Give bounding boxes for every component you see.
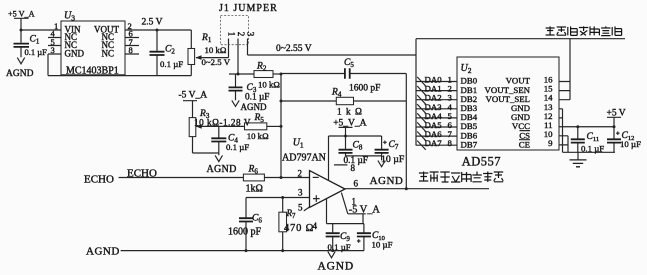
- svg-text:C7: C7: [389, 140, 399, 151]
- U3 right pin stubs 6,7,8: [125, 29, 139, 56]
- svg-text:DB7: DB7: [461, 139, 478, 149]
- wire AGND rail (bottom): [121, 249, 364, 252]
- svg-text:C8: C8: [353, 141, 363, 152]
- wire VOUT/SEN/SEL tie to top run: [559, 39, 570, 100]
- bus tap DA4 pin5: [416, 111, 457, 123]
- wire DAC output top run: [416, 38, 625, 40]
- capacitor C4: [211, 126, 249, 155]
- bus tap DA5 pin6: [416, 120, 457, 132]
- pin 1 / -5V_A supply (U1): [341, 193, 380, 224]
- capacitor C8: [339, 136, 368, 166]
- svg-text:10 kΩ: 10 kΩ: [247, 131, 269, 141]
- wire node C3/R2: [229, 73, 254, 76]
- pin 8 supply stub: [329, 136, 356, 181]
- svg-text:10 µF: 10 µF: [372, 240, 393, 250]
- wire digital ground rail: [563, 151, 616, 153]
- svg-text:0~2.55 V: 0~2.55 V: [276, 44, 312, 54]
- capacitor C7: [346, 136, 405, 165]
- wire VCC pin 11 rail: [559, 125, 616, 128]
- ground AGND (R3/C4): [207, 155, 237, 175]
- svg-text:C5: C5: [344, 58, 354, 69]
- wire CS/CE pins 10,9 to ground: [559, 136, 568, 153]
- svg-text:10 kΩ-1.28 V: 10 kΩ-1.28 V: [194, 118, 251, 128]
- svg-text:AGND: AGND: [86, 245, 120, 257]
- svg-text:5: 5: [298, 202, 303, 212]
- svg-text:3: 3: [246, 32, 256, 37]
- svg-text:+5 V_A: +5 V_A: [8, 10, 35, 19]
- node 至可变增益放大器 (to VGA) pseudo-CJK: [419, 172, 503, 183]
- svg-text:8: 8: [129, 45, 133, 55]
- svg-text:2: 2: [236, 32, 246, 37]
- power +5V_A supply (top left): [8, 10, 35, 31]
- IC U3 MC1403BP1 box: [61, 11, 125, 77]
- capacitor C2: [150, 29, 184, 76]
- wire GND pins 13,12 to ground: [559, 109, 563, 153]
- wire ECHO to R6: [119, 168, 244, 180]
- ground AGND (C1): [6, 58, 34, 79]
- svg-text:2: 2: [298, 168, 303, 178]
- svg-text:1kΩ: 1kΩ: [246, 183, 263, 194]
- power -5V_A supply (R3): [179, 90, 208, 117]
- bus tap DA2 pin3: [416, 93, 457, 105]
- capacitor C6: [228, 213, 262, 250]
- capacitor C12: [607, 127, 641, 153]
- svg-text:AD557: AD557: [462, 155, 501, 169]
- bus tap DA3 pin4: [416, 102, 457, 114]
- wire J1 pin2 down to summing network: [237, 45, 239, 74]
- node 直流偏移补偿值 (DC offset compensation value) pseudo-CJK: [546, 26, 622, 35]
- wire ground rail (U3/C2/R1): [48, 75, 191, 77]
- ground AGND (C7/C8): [370, 156, 404, 187]
- ground earth (digital): [570, 152, 587, 167]
- resistor R7: [279, 198, 314, 251]
- svg-text:1600 pF: 1600 pF: [228, 227, 262, 238]
- svg-text:CE: CE: [519, 139, 530, 149]
- bus tap DA7 pin8: [416, 138, 457, 150]
- CS CE overbars: [519, 131, 530, 140]
- svg-text:ECHO: ECHO: [127, 168, 157, 180]
- svg-text:-5 V_A: -5 V_A: [179, 90, 208, 100]
- ground AGND (C3): [232, 100, 267, 112]
- svg-text:0.1 µF: 0.1 µF: [25, 47, 48, 57]
- svg-text:DA7: DA7: [425, 138, 443, 148]
- svg-text:2: 2: [128, 21, 132, 31]
- svg-text:R6: R6: [248, 164, 259, 175]
- svg-text:+5_V_A: +5_V_A: [333, 118, 366, 128]
- svg-text:NC: NC: [101, 48, 114, 58]
- pin 4 supply stub: [313, 199, 327, 231]
- wire inverting-node vertical: [280, 73, 283, 180]
- svg-text:ECHO: ECHO: [84, 174, 114, 186]
- svg-text:0.1 µF: 0.1 µF: [160, 59, 183, 69]
- svg-text:470 Ω: 470 Ω: [284, 223, 314, 234]
- svg-text:-5 V_A: -5 V_A: [349, 205, 381, 216]
- svg-text:10 kΩ: 10 kΩ: [258, 79, 280, 89]
- svg-text:9: 9: [548, 138, 553, 148]
- svg-text:AD797AN: AD797AN: [282, 152, 326, 163]
- wire non-inverting input: [246, 196, 310, 217]
- wire -5V rail: [327, 223, 365, 225]
- svg-text:0.1 µF: 0.1 µF: [245, 93, 269, 103]
- wire output pin 6: [345, 178, 489, 188]
- svg-text:R4: R4: [331, 87, 342, 98]
- U2 pin labels DB0-DB7: [461, 76, 478, 150]
- capacitor C10: [357, 224, 393, 251]
- bus tap DA0 pin1: [416, 75, 457, 87]
- svg-text:U3: U3: [64, 11, 75, 23]
- svg-text:0~2.5 V: 0~2.5 V: [202, 57, 231, 67]
- svg-text:U2: U2: [461, 63, 472, 75]
- svg-text:AGND: AGND: [370, 175, 404, 187]
- wire VOUT pin2 2.5V: [125, 17, 191, 31]
- capacitor C9: [326, 224, 351, 252]
- svg-text:1600 pF: 1600 pF: [349, 83, 380, 93]
- wire J1 pin3 to DAC output 0~2.55V: [248, 44, 417, 55]
- svg-text:AGND: AGND: [241, 102, 267, 112]
- pin 5 stub: [298, 202, 310, 212]
- potentiometer R3: [189, 109, 219, 153]
- svg-text:R1: R1: [201, 33, 212, 44]
- capacitor C1: [14, 30, 48, 57]
- svg-text:10 µF: 10 µF: [620, 139, 641, 149]
- capacitor C11: [571, 127, 604, 154]
- svg-text:10 µF: 10 µF: [381, 154, 405, 165]
- connector J1 JUMPER: [219, 3, 278, 45]
- svg-text:8: 8: [448, 138, 453, 148]
- wire R3 wiper / node -1.28V to R5: [194, 118, 251, 129]
- svg-text:J1 JUMPER: J1 JUMPER: [219, 3, 278, 14]
- resistor R5: [245, 113, 282, 141]
- svg-text:10 kΩ: 10 kΩ: [205, 45, 227, 55]
- wire DA data bus vertical: [415, 39, 417, 146]
- svg-text:GND: GND: [65, 48, 85, 58]
- svg-text:R5: R5: [254, 113, 265, 124]
- svg-text:C11: C11: [587, 132, 600, 143]
- U2 right pin numbers: [544, 75, 553, 149]
- svg-text:MC1403BP1: MC1403BP1: [66, 65, 119, 76]
- IC U2 AD557 box: [457, 57, 559, 169]
- U2 right pin labels: [485, 76, 531, 150]
- U3 left pin stubs 4,5,3: [48, 29, 61, 56]
- svg-text:1: 1: [227, 32, 237, 37]
- svg-text:R7: R7: [286, 208, 297, 220]
- svg-text:0.1 µF: 0.1 µF: [581, 143, 604, 153]
- svg-text:AGND: AGND: [207, 164, 237, 175]
- svg-text:1 k Ω: 1 k Ω: [337, 107, 363, 117]
- power +5V supply (U2): [607, 108, 626, 126]
- resistor R2: [254, 61, 281, 89]
- potentiometer R1: [188, 30, 231, 76]
- ground AGND (C9/C10): [318, 251, 354, 272]
- svg-text:C6: C6: [252, 213, 262, 224]
- svg-text:3: 3: [298, 187, 303, 197]
- resistor R4: [280, 87, 407, 117]
- svg-text:2.5 V: 2.5 V: [142, 17, 163, 27]
- svg-text:C2: C2: [165, 45, 175, 56]
- svg-text:AGND: AGND: [318, 261, 354, 273]
- wire R1 wiper to J1 pin1: [196, 45, 229, 60]
- wire feedback to output: [405, 74, 408, 191]
- bus tap DA6 pin7: [416, 129, 457, 141]
- capacitor C3: [229, 74, 270, 103]
- svg-text:4: 4: [313, 221, 318, 231]
- wire pin1 VIN: [20, 29, 62, 32]
- svg-text:C1: C1: [30, 35, 40, 46]
- svg-text:0.1 µF: 0.1 µF: [344, 156, 368, 166]
- svg-text:6: 6: [354, 178, 359, 188]
- svg-text:U1: U1: [293, 137, 304, 149]
- svg-text:R2: R2: [256, 61, 267, 72]
- power +5V_A supply (U1): [329, 118, 382, 137]
- wire U3 GND pin3 down: [47, 54, 49, 76]
- svg-text:AGND: AGND: [6, 69, 34, 79]
- resistor R6: [243, 164, 309, 194]
- capacitor C5: [281, 58, 406, 93]
- svg-text:0.1 µF: 0.1 µF: [226, 142, 249, 152]
- op-amp U1 AD797AN: [282, 137, 345, 207]
- bus tap DA1 pin2: [416, 84, 457, 96]
- svg-text:3: 3: [51, 45, 55, 55]
